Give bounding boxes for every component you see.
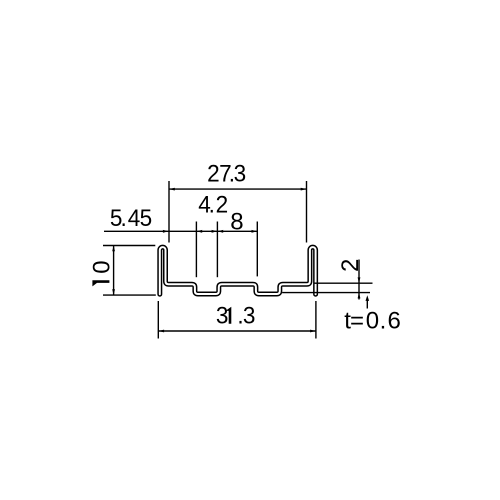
svg-text:3: 3 <box>243 302 256 329</box>
dim 27.3 line <box>169 188 307 190</box>
dim 5.45/4.2/8 shared line <box>104 230 257 232</box>
extension line channel1 right <box>216 222 218 278</box>
dim 31.3 arrow right <box>310 330 316 333</box>
svg-text:6: 6 <box>388 307 401 334</box>
dim 10 line <box>113 246 115 296</box>
svg-text:2: 2 <box>216 191 229 218</box>
dim 2 arrow bottom <box>358 293 361 299</box>
profile sheet outline (black outer stroke) <box>160 247 316 294</box>
svg-text:.: . <box>121 204 127 231</box>
svg-text:3: 3 <box>234 160 247 187</box>
dim 10 label (rotated digits 1 and 0) <box>88 260 115 286</box>
dim 8 arrow right <box>252 230 258 233</box>
dim 8 arrow left <box>217 230 223 233</box>
dim 4.2 arrow right <box>212 230 218 233</box>
svg-text:8: 8 <box>230 208 243 235</box>
svg-text:0: 0 <box>88 260 115 273</box>
profile sheet interior (white inner stroke) <box>160 247 316 294</box>
extension line channel2 left <box>256 222 258 277</box>
dim 31.3 arrow left <box>158 330 164 333</box>
dim 10 arrow top <box>112 246 115 252</box>
dim 31.3 line <box>158 330 316 332</box>
svg-text:0: 0 <box>366 307 379 334</box>
dim 31.3 extension line left <box>157 301 159 339</box>
dim 31.3 label <box>216 302 256 329</box>
svg-text:2: 2 <box>337 259 364 272</box>
dim 27.3 label <box>207 160 246 187</box>
leader t=0.6 line <box>366 298 368 309</box>
dim 31.3 extension line right <box>315 301 317 339</box>
dim 2 extension line bottom <box>282 292 370 294</box>
extension line channel1 left <box>195 222 197 278</box>
svg-text:2: 2 <box>207 160 220 187</box>
dim 27.3 extension line left <box>168 181 170 243</box>
dim 2 line <box>358 260 360 300</box>
dim 10 extension line top <box>103 245 155 247</box>
dim 10 extension line bottom <box>103 294 156 296</box>
dim 27.3 extension line right <box>306 181 308 243</box>
dim 2 arrow top <box>358 277 361 283</box>
svg-text:4: 4 <box>128 204 141 231</box>
svg-text:.: . <box>209 191 215 218</box>
dim 4.2 arrow left <box>196 230 202 233</box>
dim 27.3 arrow left <box>169 188 175 191</box>
leader t=0.6 arrow <box>366 295 370 301</box>
dim 27.3 arrow right <box>301 188 307 191</box>
label t=0.6 <box>344 307 401 334</box>
dim 10 arrow bottom <box>112 289 115 295</box>
svg-text:.: . <box>380 307 387 334</box>
svg-text:3: 3 <box>216 302 229 329</box>
dim 4.2 label <box>198 191 228 218</box>
dim 2 extension line top <box>314 282 373 284</box>
dim 5.45 arrow <box>163 230 169 233</box>
svg-text:=: = <box>350 307 364 334</box>
svg-text:5: 5 <box>140 204 153 231</box>
dim 5.45 label <box>110 204 152 231</box>
